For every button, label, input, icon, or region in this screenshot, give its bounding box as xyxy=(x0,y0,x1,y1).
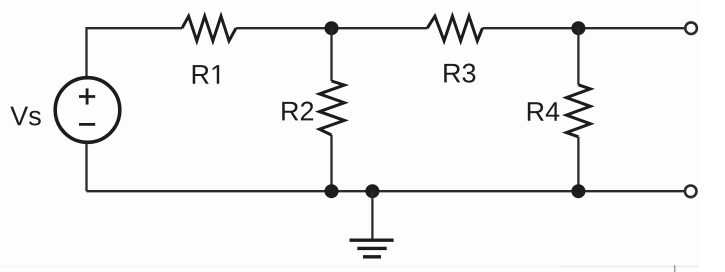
label R3 xyxy=(444,64,475,83)
output terminal bottom xyxy=(685,186,697,198)
minus sign xyxy=(79,123,95,126)
wire R2 down to bottom rail xyxy=(330,135,332,191)
wire R4 down to bottom rail xyxy=(577,137,579,191)
ground stem wire xyxy=(371,191,373,239)
node A junction dot xyxy=(325,21,339,35)
node B junction dot xyxy=(571,21,585,35)
plus sign xyxy=(79,88,95,104)
bottom node under R4 junction dot xyxy=(571,184,585,198)
wire node A down to R2 xyxy=(330,28,332,81)
resistor R4 xyxy=(566,85,590,137)
bottom rail wire xyxy=(87,190,685,192)
ground node junction dot xyxy=(365,184,379,198)
label R2 xyxy=(282,102,313,121)
wire top from source to R1 xyxy=(87,28,183,77)
label Vs xyxy=(10,107,40,126)
resistor R1 xyxy=(182,16,236,41)
wire R1 to node A xyxy=(236,27,427,29)
label R4 xyxy=(528,102,560,121)
label R1 xyxy=(193,65,219,84)
wire source bottom to bottom rail xyxy=(85,143,87,191)
resistor R3 xyxy=(427,16,482,41)
voltage source Vs circle xyxy=(55,78,120,143)
wire node B down to R4 xyxy=(577,28,579,85)
ground symbol xyxy=(350,240,394,257)
wire R3 to output terminal xyxy=(482,27,684,29)
output terminal top xyxy=(685,22,697,34)
resistor R2 xyxy=(319,81,344,135)
bottom node under R2 junction dot xyxy=(325,184,339,198)
